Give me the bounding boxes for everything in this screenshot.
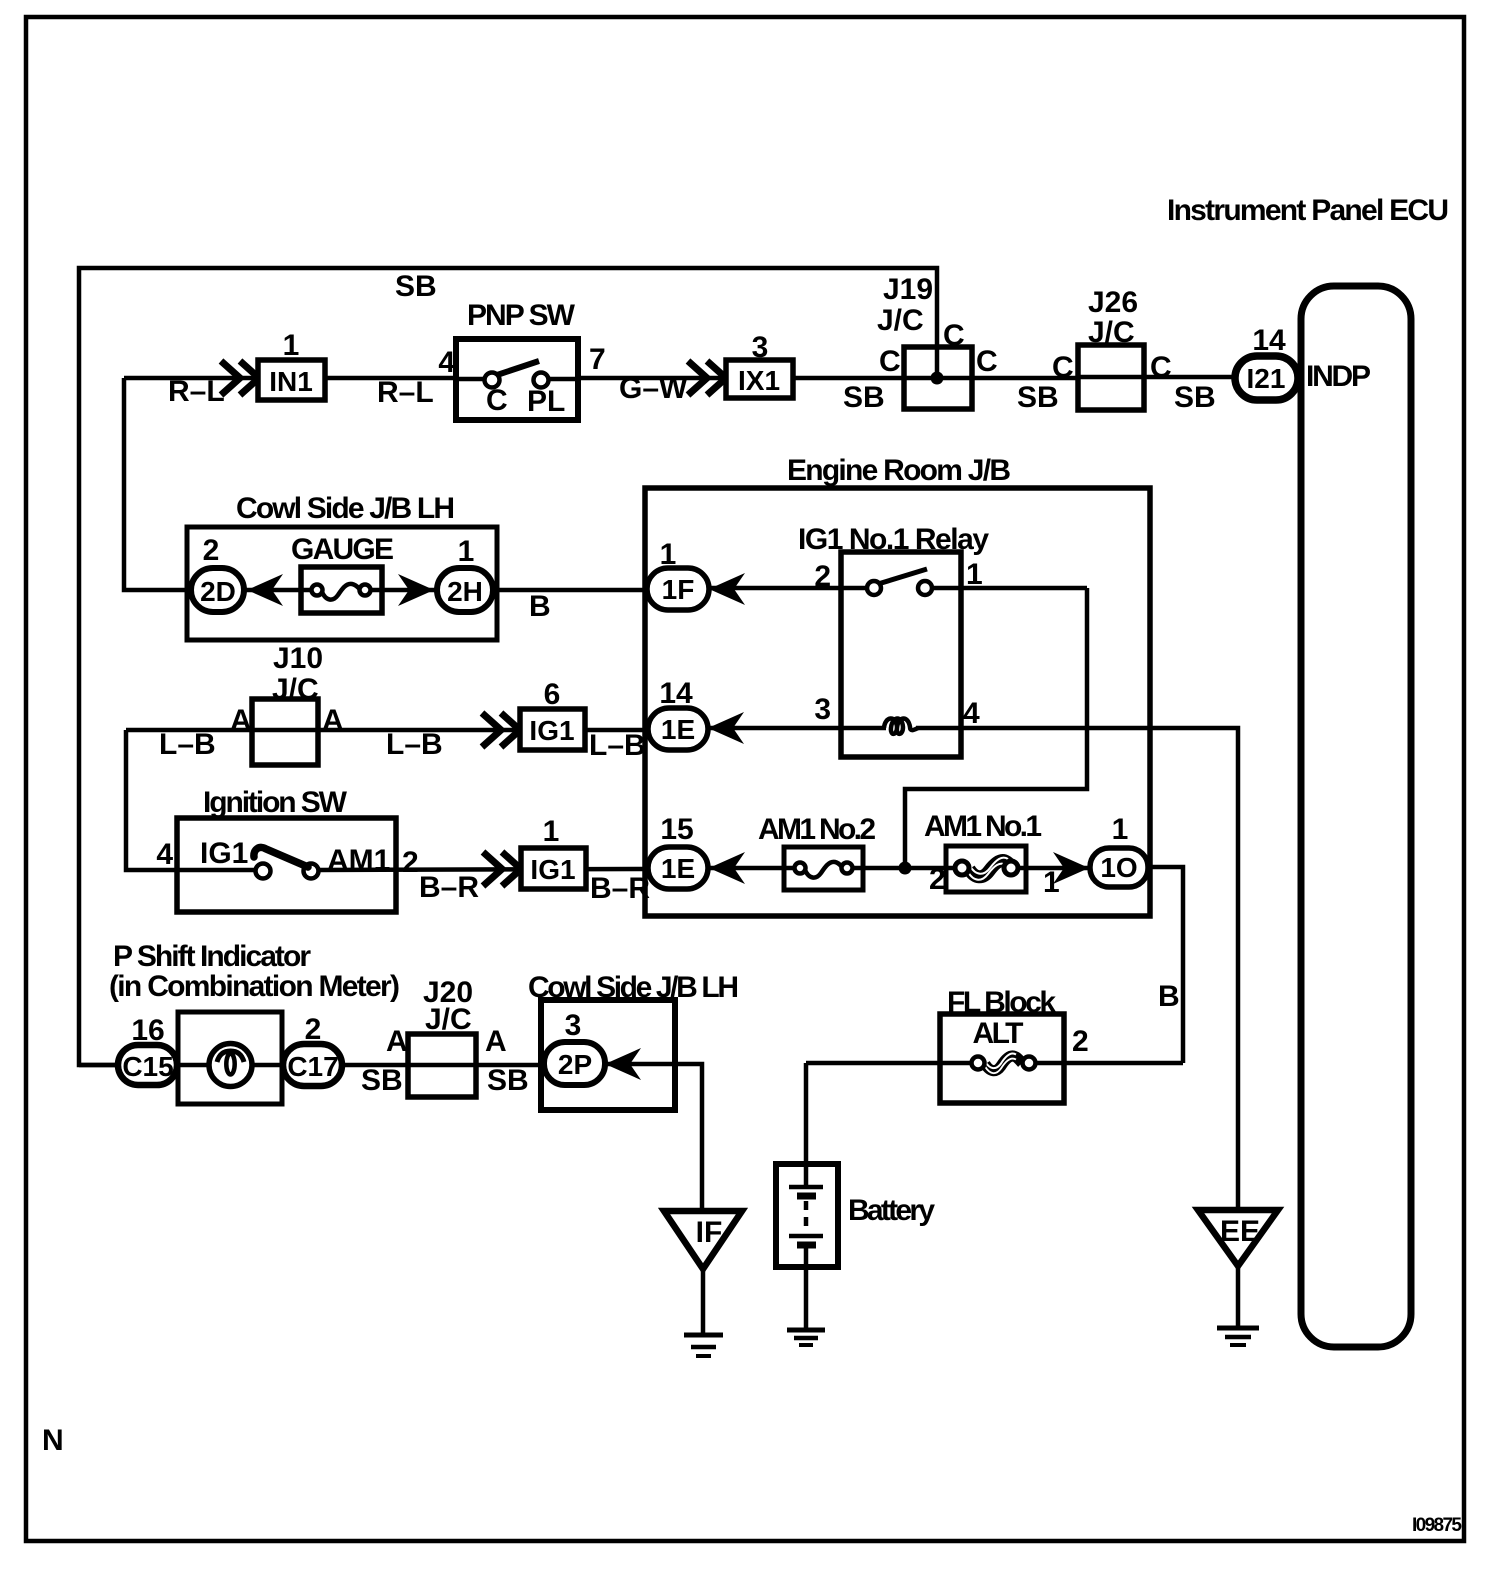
svg-text:IN1: IN1 (269, 366, 313, 397)
connector I21 (1235, 356, 1298, 400)
arrow into 1E pin 14 (708, 712, 744, 744)
svg-text:1: 1 (966, 558, 983, 591)
svg-text:B–R: B–R (419, 871, 479, 904)
svg-text:15: 15 (660, 813, 693, 846)
svg-text:SB: SB (487, 1064, 529, 1097)
svg-text:SB: SB (361, 1064, 403, 1097)
connector 1E pin 14 (648, 708, 708, 750)
svg-text:J/C: J/C (877, 304, 924, 337)
svg-text:7: 7 (589, 343, 606, 376)
arrow into 1E pin 15 (709, 852, 745, 884)
svg-text:1: 1 (458, 535, 475, 568)
svg-text:1: 1 (1043, 866, 1060, 899)
svg-text:IG1: IG1 (530, 854, 575, 885)
wire L-B row: corner to 1E 14 through J10 (126, 728, 650, 733)
svg-text:A: A (386, 1025, 408, 1058)
svg-text:6: 6 (544, 678, 561, 711)
svg-text:N: N (42, 1424, 64, 1457)
wire relay pin 1 right (925, 586, 1087, 591)
svg-text:1: 1 (660, 538, 677, 571)
svg-text:Cowl Side J/B LH: Cowl Side J/B LH (236, 492, 455, 525)
svg-text:IG1: IG1 (200, 837, 248, 870)
wire IN1 feed down to 2D (R-L) (124, 378, 195, 590)
svg-text:IF: IF (696, 1216, 723, 1249)
svg-text:EE: EE (1220, 1215, 1260, 1248)
svg-text:G–W: G–W (619, 372, 688, 405)
fuse GAUGE (301, 567, 382, 613)
wire down from L-B corner to ignition SW pin 4 (126, 730, 256, 870)
arrow into 2D (247, 574, 283, 606)
svg-text:IX1: IX1 (738, 365, 780, 396)
svg-text:2: 2 (305, 1013, 322, 1046)
svg-text:J19: J19 (883, 273, 933, 306)
wire IX1 to J19 J/C (SB) (793, 376, 904, 381)
connector IG1 (6) (520, 709, 585, 750)
junction connector J10 J/C (252, 699, 318, 765)
svg-text:ALT: ALT (973, 1017, 1024, 1050)
fuse AM1 No.2 (784, 847, 863, 890)
svg-text:R–L: R–L (377, 376, 434, 409)
wire arrow chevrons before IG1 (6) (482, 713, 520, 747)
svg-text:L–B: L–B (589, 729, 646, 762)
svg-text:1O: 1O (1100, 852, 1137, 883)
junction block Cowl Side J/B LH (upper) (187, 527, 497, 640)
svg-text:C: C (486, 384, 508, 417)
battery (776, 1164, 838, 1267)
svg-text:2: 2 (929, 863, 946, 896)
connector C15 (118, 1045, 177, 1085)
svg-text:B: B (1158, 980, 1180, 1013)
svg-text:C17: C17 (287, 1051, 338, 1082)
svg-text:14: 14 (1252, 324, 1286, 357)
svg-text:P Shift Indicator: P Shift Indicator (113, 940, 311, 973)
wire through J19 J/C to J26 J/C (SB) (904, 376, 1078, 381)
junction connector J26 J/C (1078, 345, 1144, 410)
wire FL block internal left (940, 1061, 972, 1066)
svg-text:16: 16 (131, 1014, 164, 1047)
wire relay pin 1 down to AM1 junction (905, 588, 1087, 868)
junction block Engine Room J/B (645, 488, 1150, 916)
ground symbol below EE (1217, 1328, 1259, 1345)
wire EE triangle to ground (1236, 1266, 1241, 1328)
connector 2H (437, 568, 493, 612)
svg-text:L–B: L–B (159, 728, 216, 761)
svg-text:GAUGE: GAUGE (291, 533, 394, 566)
ground symbol below battery (787, 1330, 825, 1345)
svg-text:PNP SW: PNP SW (467, 299, 576, 332)
wire 1E 14 to relay coil pin 3 (708, 726, 886, 731)
svg-text:A: A (322, 704, 344, 737)
wire arrow chevrons before IG1 (1) (483, 852, 521, 886)
svg-text:C: C (1052, 351, 1074, 384)
connector 1F (647, 568, 709, 610)
svg-text:1E: 1E (661, 853, 695, 884)
svg-text:(in Combination Meter): (in Combination Meter) (109, 970, 400, 1003)
wire battery negative to ground (804, 1245, 809, 1330)
indicator lamp box (178, 1012, 282, 1104)
svg-text:1: 1 (1112, 813, 1129, 846)
ECU connector body (Instrument Panel ECU) (1301, 286, 1411, 1347)
wire FL block to battery (806, 1061, 940, 1066)
connector IX1 (726, 360, 793, 398)
svg-text:C: C (943, 319, 965, 352)
svg-text:2P: 2P (558, 1049, 592, 1080)
wire AM1 No.1 fuse to 1O (1017, 866, 1090, 871)
svg-text:2H: 2H (447, 576, 483, 607)
wire 1O right and down to FL block (B) (1148, 867, 1183, 1063)
svg-text:Ignition SW: Ignition SW (203, 786, 348, 819)
svg-text:A: A (230, 704, 252, 737)
arrow into 1O (1053, 852, 1089, 884)
wire GAUGE fuse to 2H (369, 588, 437, 593)
svg-text:J/C: J/C (272, 673, 319, 706)
svg-text:FL Block: FL Block (947, 986, 1056, 1019)
connector 1O (1090, 848, 1148, 887)
svg-text:INDP: INDP (1306, 360, 1371, 393)
wire 1E 15 to AM1 No.2 fuse (709, 866, 794, 871)
svg-text:AM1 No.1: AM1 No.1 (924, 810, 1042, 843)
svg-text:C: C (879, 345, 901, 378)
svg-text:C: C (1150, 351, 1172, 384)
svg-text:1E: 1E (661, 714, 695, 745)
wire IN1 to PNP SW pin 4 (325, 376, 456, 381)
connector 1E pin 15 (648, 847, 708, 889)
connector IG1 (1) (521, 848, 586, 889)
svg-text:3: 3 (565, 1009, 582, 1042)
wire P shift indicator row: C15 to 2P (SB) (79, 1063, 548, 1068)
junction block Cowl Side J/B LH (lower) (541, 1000, 675, 1110)
svg-text:C: C (976, 345, 998, 378)
svg-text:R–L: R–L (168, 375, 225, 408)
wire IF triangle to ground (701, 1269, 706, 1333)
svg-text:Engine Room J/B: Engine Room J/B (787, 454, 1011, 487)
svg-text:1: 1 (543, 815, 560, 848)
indicator lamp bulb (209, 1044, 252, 1087)
svg-text:B: B (529, 590, 551, 623)
wire arrow chevrons before IN1 (221, 361, 259, 395)
wire J26 J/C to I21 INDP (SB) (1078, 375, 1235, 380)
relay coil (884, 718, 918, 733)
wire arrow chevrons before IX1 (688, 361, 726, 395)
svg-text:J10: J10 (273, 642, 323, 675)
wire AM1 No.2 fuse to AM1 No.1 fuse with junction (852, 866, 956, 871)
svg-text:C15: C15 (122, 1051, 173, 1082)
junction dot between AM1 No.2 and AM1 No.1 (899, 862, 912, 875)
svg-text:14: 14 (659, 677, 693, 710)
svg-text:2: 2 (203, 534, 220, 567)
arrow into 2H (398, 574, 434, 606)
svg-text:2D: 2D (200, 576, 236, 607)
wire 1F to relay pin 2 (709, 586, 874, 591)
svg-text:L–B: L–B (386, 728, 443, 761)
wire SB: from J19 J/C junction up, across top, down left margin to C15 (79, 268, 937, 1065)
svg-text:SB: SB (1017, 381, 1059, 414)
svg-text:3: 3 (752, 331, 769, 364)
fusible link AM1 No.1 (946, 846, 1026, 892)
wire top row: left corner to IN1 (124, 376, 258, 381)
svg-text:B–R: B–R (590, 872, 650, 905)
fusible link FL Block ALT (940, 1014, 1064, 1103)
ground connector EE (1198, 1210, 1278, 1266)
svg-text:SB: SB (843, 381, 885, 414)
svg-text:4: 4 (438, 346, 455, 379)
wire FL block internal right to B vertical (1035, 1061, 1183, 1066)
svg-text:4: 4 (963, 697, 980, 730)
svg-text:1: 1 (283, 329, 300, 362)
connector 2P (544, 1042, 605, 1085)
svg-text:Cowl Side J/B LH: Cowl Side J/B LH (528, 971, 739, 1004)
svg-text:IG1 No.1 Relay: IG1 No.1 Relay (798, 523, 989, 556)
svg-text:SB: SB (1174, 381, 1216, 414)
svg-text:AM1: AM1 (327, 844, 390, 877)
svg-text:2: 2 (1072, 1025, 1089, 1058)
ground symbol below IF (684, 1335, 723, 1356)
switch Ignition SW (177, 818, 396, 912)
svg-text:J/C: J/C (1088, 316, 1135, 349)
switch PNP SW (456, 339, 578, 420)
wire battery positive feed down (804, 1063, 809, 1187)
wire 2P right and down to IF ground (602, 1064, 702, 1211)
svg-text:SB: SB (395, 270, 437, 303)
wire ignition SW AM1 pin 2 to 1E 15 (B-R) (318, 869, 650, 870)
svg-text:PL: PL (527, 385, 565, 418)
connector 2D (191, 568, 244, 612)
svg-text:2: 2 (402, 846, 419, 879)
svg-text:J/C: J/C (425, 1003, 472, 1036)
relay IG1 No.1 (841, 552, 961, 757)
junction connector J20 J/C (408, 1034, 476, 1097)
wire PNP SW pin 7 to IX1 (G-W) (578, 376, 726, 381)
svg-text:J26: J26 (1088, 286, 1138, 319)
svg-text:I21: I21 (1247, 363, 1286, 394)
arrow into 2P (605, 1048, 641, 1080)
svg-text:IG1: IG1 (529, 715, 574, 746)
connector C17 (283, 1044, 342, 1086)
ground connector IF (664, 1211, 742, 1269)
svg-text:Instrument Panel ECU: Instrument Panel ECU (1167, 194, 1449, 227)
wire 2D to GAUGE fuse (244, 588, 313, 593)
svg-text:2: 2 (814, 560, 831, 593)
svg-text:A: A (485, 1025, 507, 1058)
wire 2H to 1F (B) (493, 588, 650, 593)
connector IN1 (258, 360, 325, 400)
svg-text:I09875: I09875 (1412, 1515, 1462, 1536)
arrow into 1F (709, 573, 745, 605)
wire relay coil pin 4 right and down to EE (916, 728, 1238, 1210)
svg-text:Battery: Battery (848, 1194, 935, 1227)
svg-text:AM1 No.2: AM1 No.2 (758, 813, 876, 846)
svg-text:4: 4 (156, 838, 173, 871)
junction connector J19 J/C (904, 347, 972, 409)
junction dot in J19 J/C (931, 372, 944, 385)
svg-text:1F: 1F (662, 574, 695, 605)
svg-text:3: 3 (814, 693, 831, 726)
